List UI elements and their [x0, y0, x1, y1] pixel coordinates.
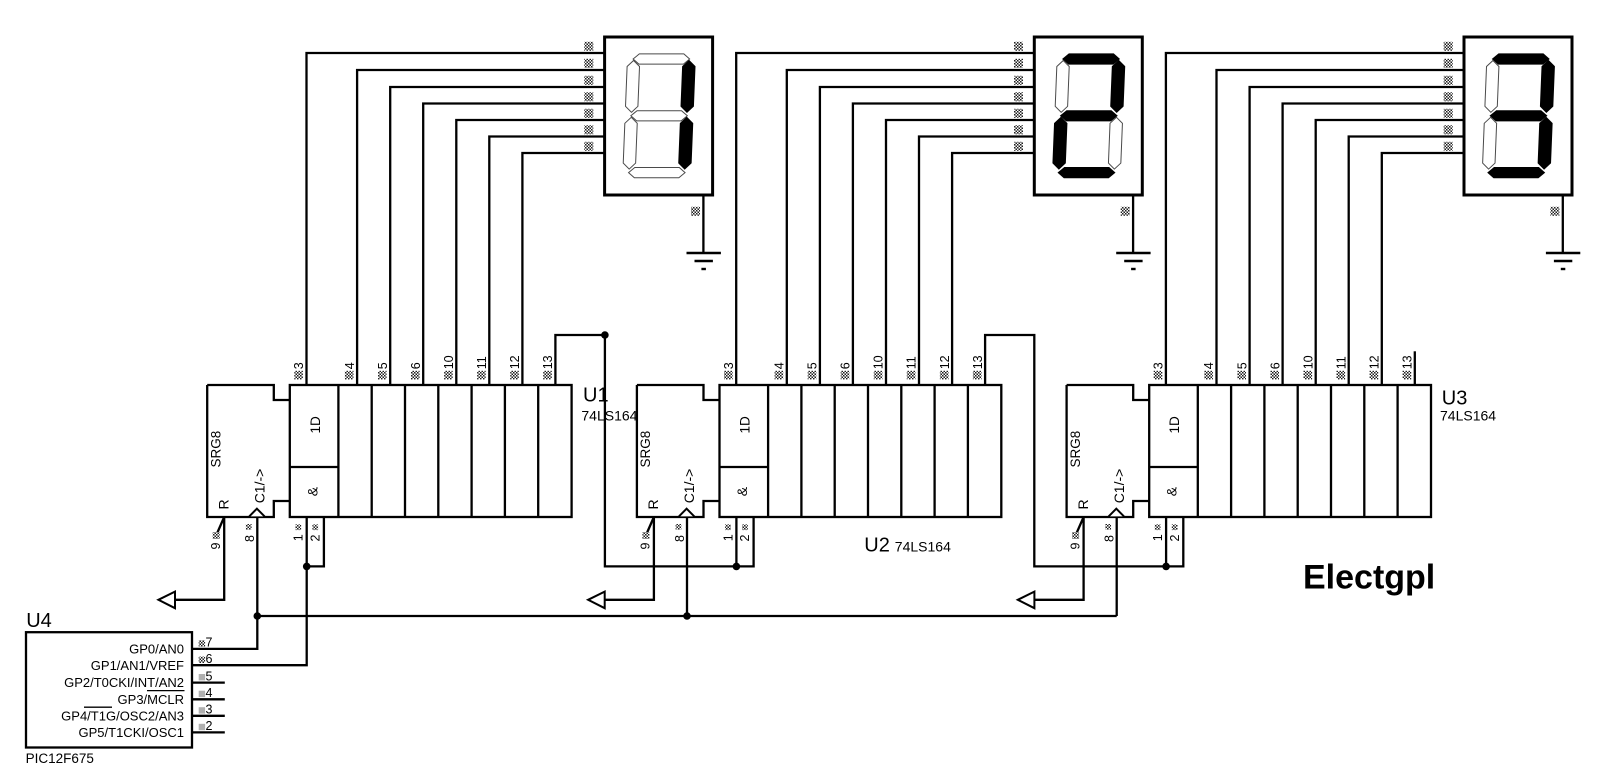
svg-text:9: 9: [1068, 543, 1082, 550]
svg-text:&: &: [1164, 486, 1180, 496]
wire U4 GP2 pin 5 stub: [192, 681, 225, 683]
wire U4 GP1 pin 6 to U1 data: [192, 566, 307, 665]
U2 pin number 4: [773, 362, 787, 379]
wire U1 pin 13 to U2 data input: [555, 335, 736, 566]
junction: [733, 563, 741, 571]
svg-text:U2: U2: [864, 534, 890, 556]
wire U3 pin 8 clock: [1116, 517, 1118, 616]
U2 pin number 1: [721, 524, 735, 541]
svg-text:3: 3: [206, 703, 213, 717]
wire display DS2 cathode to ground: [1132, 195, 1134, 253]
wire U1 pin 1 data: [306, 517, 308, 566]
wire U4 GP3 pin 4 stub: [192, 698, 225, 700]
shift register U2 74LS164: [637, 385, 1001, 517]
wire U2 pin 1 data: [735, 517, 737, 566]
U1 pin number 13: [541, 355, 555, 379]
wire U3 pin 11 to display DS3: [1349, 137, 1464, 386]
junction: [1162, 563, 1170, 571]
U3 pin number 5: [1235, 362, 1249, 379]
U2 pin number 12: [938, 355, 952, 379]
wire display DS1 cathode to ground: [702, 195, 704, 253]
U3 pin number 9: [1068, 532, 1082, 550]
svg-text:SRG8: SRG8: [638, 431, 653, 468]
microcontroller U4 PIC12F675: [26, 632, 192, 747]
U2 pin number 2: [738, 524, 752, 541]
svg-text:8: 8: [673, 535, 687, 542]
wire U1 pin 10 to display DS1: [456, 120, 604, 385]
U4 pin number 3: [199, 703, 213, 717]
svg-text:&: &: [304, 486, 320, 496]
U2 pin number 10: [872, 355, 886, 379]
wire display DS3 cathode to ground: [1562, 195, 1564, 253]
svg-text:U1: U1: [583, 384, 609, 406]
svg-text:8: 8: [243, 535, 257, 542]
svg-text:1: 1: [1151, 534, 1165, 541]
U1 pin number 2: [308, 524, 322, 541]
U3 pin number 1: [1151, 524, 1165, 541]
svg-text:13: 13: [541, 355, 555, 369]
svg-text:5: 5: [1235, 362, 1249, 369]
wire U4 GP5 pin 2 stub: [192, 731, 225, 733]
net arrow left: [158, 592, 175, 609]
junction: [303, 563, 311, 571]
U4 pin number 7: [199, 636, 213, 650]
U3 pin number 2: [1168, 524, 1182, 541]
U1 pin number 5: [376, 362, 390, 379]
wire U2 pin 12 to display DS2: [952, 153, 1034, 385]
svg-text:SRG8: SRG8: [209, 431, 224, 468]
wire U4 GP0 pin 7 to clock bus: [192, 616, 257, 649]
ground: [1546, 253, 1580, 269]
display DS3 pin markers: [1444, 42, 1560, 216]
wire U1 pin 9 reset net: [161, 517, 224, 600]
U2 pin number 13: [971, 355, 985, 379]
svg-text:C1/->: C1/->: [1111, 469, 1127, 504]
U2 pin number 5: [806, 362, 820, 379]
wire U1 pin 5 to display DS1: [390, 87, 604, 385]
svg-text:6: 6: [1268, 362, 1282, 369]
U1 pin number 3: [292, 362, 306, 379]
svg-text:1D: 1D: [308, 416, 323, 434]
svg-text:6: 6: [409, 362, 423, 369]
wire U1 pin 4 to display DS1: [357, 70, 604, 385]
svg-text:6: 6: [206, 652, 213, 666]
svg-text:4: 4: [206, 686, 213, 700]
svg-text:11: 11: [905, 356, 919, 369]
svg-text:5: 5: [806, 362, 820, 369]
svg-text:GP0/AN0: GP0/AN0: [129, 642, 184, 657]
wire U2 pin 8 clock: [686, 517, 688, 616]
svg-text:1: 1: [292, 534, 306, 541]
U1 pin number 1: [292, 524, 306, 541]
net arrow left: [588, 592, 605, 609]
7-segment display DS3: [1464, 37, 1572, 195]
wire U3 pin 5 to display DS3: [1250, 87, 1464, 385]
wire U2 pin 2 data: [736, 517, 753, 566]
U3 pin number 8: [1103, 524, 1117, 542]
wire U2 pin 4 to display DS2: [787, 70, 1035, 385]
svg-text:11: 11: [1334, 356, 1348, 369]
svg-text:10: 10: [872, 355, 886, 369]
svg-text:U4: U4: [26, 610, 52, 632]
svg-text:3: 3: [1152, 362, 1166, 369]
shift register U1 74LS164: [207, 385, 571, 517]
svg-text:7: 7: [206, 636, 213, 650]
svg-text:5: 5: [206, 669, 213, 683]
U1 pin number 8: [243, 524, 257, 542]
wire U3 pin 13 stub: [1414, 351, 1416, 385]
U1 pin number 12: [508, 355, 522, 379]
svg-text:GP2/T0CKI/INT/AN2: GP2/T0CKI/INT/AN2: [64, 675, 184, 690]
svg-text:74LS164: 74LS164: [1440, 407, 1496, 423]
wire U2 pin 9 reset net: [591, 517, 654, 600]
svg-text:GP5/T1CKI/OSC1: GP5/T1CKI/OSC1: [79, 725, 184, 740]
U3 pin number 12: [1368, 355, 1382, 379]
shift register U3 74LS164: [1067, 385, 1431, 517]
wire U3 pin 4 to display DS3: [1217, 70, 1465, 385]
U3 pin number 11: [1334, 356, 1348, 379]
U3 pin number 6: [1268, 362, 1282, 379]
U4 pin number 4: [199, 686, 213, 700]
svg-text:4: 4: [773, 362, 787, 369]
wire U3 pin 9 reset net: [1020, 517, 1083, 600]
svg-text:3: 3: [722, 362, 736, 369]
svg-text:12: 12: [938, 355, 952, 369]
U2 pin number 6: [839, 362, 853, 379]
svg-text:C1/->: C1/->: [681, 469, 697, 504]
U2 pin number 8: [673, 524, 687, 542]
U3 pin number 4: [1202, 362, 1216, 379]
svg-text:9: 9: [209, 543, 223, 550]
wire U3 pin 1 data: [1165, 517, 1167, 566]
wire U1 pin 12 to display DS1: [522, 153, 604, 385]
svg-text:2: 2: [738, 535, 752, 542]
wire U2 pin 6 to display DS2: [853, 104, 1034, 386]
wire U2 pin 3 to display DS2: [736, 53, 1034, 385]
wire U3 pin 2 data: [1166, 517, 1183, 566]
display DS2 pin markers: [1014, 42, 1130, 216]
wire U2 pin 10 to display DS2: [886, 120, 1034, 385]
junction: [683, 612, 691, 620]
display DS1 pin markers: [584, 42, 700, 216]
svg-text:R: R: [645, 499, 661, 509]
U2 pin number 3: [722, 362, 736, 379]
svg-text:R: R: [216, 499, 232, 509]
U3 pin number 13: [1401, 355, 1415, 379]
svg-text:2: 2: [206, 719, 213, 733]
svg-text:6: 6: [839, 362, 853, 369]
ground: [1116, 253, 1150, 269]
svg-text:1D: 1D: [738, 416, 753, 434]
wire U1 pin 11 to display DS1: [489, 137, 604, 386]
svg-text:1D: 1D: [1167, 416, 1182, 434]
svg-text:74LS164: 74LS164: [895, 538, 951, 554]
svg-text:8: 8: [1103, 535, 1117, 542]
junction: [601, 331, 609, 339]
svg-text:5: 5: [376, 362, 390, 369]
ground: [687, 253, 721, 269]
svg-text:&: &: [734, 486, 750, 496]
svg-text:C1/->: C1/->: [252, 469, 268, 504]
U1 pin number 10: [442, 355, 456, 379]
svg-text:4: 4: [343, 362, 357, 369]
svg-text:R: R: [1075, 499, 1091, 509]
svg-text:2: 2: [1168, 535, 1182, 542]
svg-text:74LS164: 74LS164: [581, 407, 637, 423]
svg-text:13: 13: [971, 355, 985, 369]
svg-text:SRG8: SRG8: [1068, 431, 1083, 468]
svg-text:U3: U3: [1442, 387, 1468, 409]
wire U1 pin 6 to display DS1: [423, 104, 604, 386]
wire U2 pin 5 to display DS2: [820, 87, 1034, 385]
wire clock bus GP0 to U1,U2,U3 pin 8: [257, 615, 1116, 617]
svg-text:1: 1: [721, 534, 735, 541]
wire U3 pin 6 to display DS3: [1283, 104, 1464, 386]
wire U2 pin 13 to U3 data input: [985, 335, 1166, 566]
U4 pin number 2: [199, 719, 213, 733]
svg-text:10: 10: [442, 355, 456, 369]
U3 pin number 3: [1152, 362, 1166, 379]
U1 pin number 4: [343, 362, 357, 379]
U1 pin number 9: [209, 532, 223, 550]
svg-text:4: 4: [1202, 362, 1216, 369]
U3 pin number 10: [1301, 355, 1315, 379]
wire U1 pin 8 clock: [256, 517, 258, 616]
7-segment display DS2: [1034, 37, 1142, 195]
svg-text:GP1/AN1/VREF: GP1/AN1/VREF: [91, 658, 184, 673]
U1 pin number 6: [409, 362, 423, 379]
junction: [253, 612, 261, 620]
U4 pin number 6: [199, 652, 213, 666]
svg-text:12: 12: [1368, 355, 1382, 369]
svg-text:PIC12F675: PIC12F675: [26, 751, 94, 766]
wire U3 pin 10 to display DS3: [1316, 120, 1464, 385]
svg-text:10: 10: [1301, 355, 1315, 369]
svg-text:2: 2: [308, 535, 322, 542]
net arrow left: [1018, 592, 1035, 609]
U2 pin number 9: [639, 532, 653, 550]
wire U1 pin 3 to display DS1: [307, 53, 605, 385]
wire U3 pin 12 to display DS3: [1382, 153, 1464, 385]
svg-text:9: 9: [639, 543, 653, 550]
U1 pin number 11: [475, 356, 489, 379]
svg-text:3: 3: [292, 362, 306, 369]
U2 pin number 11: [905, 356, 919, 379]
U4 pin number 5: [199, 669, 213, 683]
wire U3 pin 3 to display DS3: [1166, 53, 1464, 385]
svg-text:13: 13: [1401, 355, 1415, 369]
wire U2 pin 11 to display DS2: [919, 137, 1034, 386]
wire U4 GP4 pin 3 stub: [192, 715, 225, 717]
svg-text:Electgpl: Electgpl: [1303, 559, 1435, 597]
svg-text:GP3/MCLR: GP3/MCLR: [118, 692, 184, 707]
svg-text:11: 11: [475, 356, 489, 369]
wire U1 pin 2 data: [307, 517, 324, 566]
7-segment display DS1: [605, 37, 713, 195]
svg-text:GP4/T1G/OSC2/AN3: GP4/T1G/OSC2/AN3: [61, 708, 184, 723]
svg-text:12: 12: [508, 355, 522, 369]
